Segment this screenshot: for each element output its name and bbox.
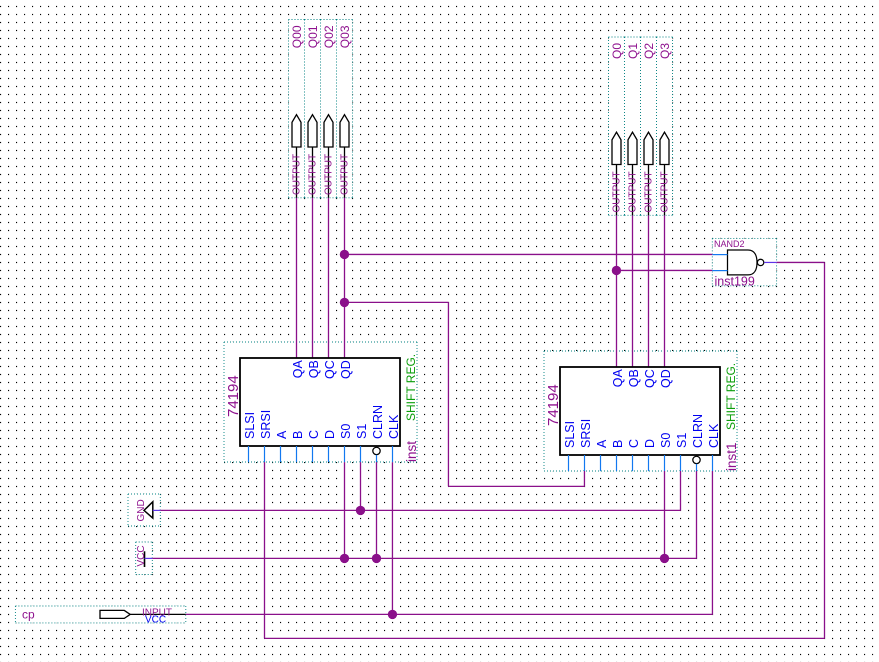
svg-text:VCC: VCC (145, 615, 166, 626)
svg-text:SLSI: SLSI (563, 421, 577, 448)
svg-text:QA: QA (611, 369, 625, 388)
svg-text:CLK: CLK (707, 423, 721, 448)
wire chip1 S0 drop (344, 462, 346, 558)
svg-text:QA: QA (291, 360, 305, 379)
svg-text:Q1: Q1 (626, 43, 640, 59)
svg-text:NAND2: NAND2 (714, 239, 745, 249)
svg-text:SHIFT REG.: SHIFT REG. (404, 354, 418, 421)
wire cp net horizontal (186, 613, 713, 615)
junction VCC/CLRN-1 (372, 554, 381, 563)
selection box GND (128, 494, 160, 526)
selection box pin Q0 (609, 37, 625, 215)
wire VCC riser to chip2 CLRN (696, 471, 698, 558)
wire net Q2 vertical (648, 215, 650, 367)
input pin cp (22, 608, 186, 626)
svg-text:QB: QB (627, 369, 641, 387)
svg-text:C: C (307, 430, 321, 439)
selection box NAND2 (712, 238, 776, 285)
svg-text:C: C (627, 439, 641, 448)
svg-text:SLSI: SLSI (243, 412, 257, 439)
junction QD1 branch (340, 298, 349, 307)
wire chip1 S1 drop (360, 462, 362, 510)
74194 shift register inst (225, 354, 419, 462)
74194 shift register inst1 (545, 363, 739, 471)
svg-text:OUTPUT: OUTPUT (628, 171, 639, 212)
svg-text:CLRN: CLRN (371, 405, 385, 439)
wire cp riser to chip2 CLK (711, 471, 713, 614)
svg-text:inst1: inst1 (724, 442, 739, 471)
svg-text:CLK: CLK (387, 414, 401, 439)
svg-text:Q00: Q00 (290, 25, 304, 48)
wire net Q01 vertical (312, 198, 314, 358)
output pin Q01 (306, 25, 320, 198)
svg-text:B: B (611, 440, 625, 448)
wire underlays (erase grid under wires) (295, 198, 298, 358)
selection box pin Q02 (321, 20, 337, 198)
output pin Q3 (658, 43, 672, 216)
wire QD1 to NAND input A (344, 253, 712, 255)
wire NAND output to right rail (777, 261, 825, 263)
selection box pin Q00 (289, 20, 305, 198)
wire VCC net horizontal (152, 557, 696, 559)
svg-text:SRSI: SRSI (579, 419, 593, 448)
svg-text:Q03: Q03 (338, 25, 352, 48)
selection box pin Q03 (337, 20, 353, 198)
svg-text:OUTPUT: OUTPUT (644, 171, 655, 212)
wire net Q00 vertical (296, 198, 298, 358)
selection box pin Q1 (625, 37, 641, 215)
junction QA2/NAND-B (612, 266, 621, 275)
svg-text:QD: QD (339, 360, 353, 379)
wire net Q3 vertical (664, 215, 666, 367)
wire right rail vertical (824, 262, 826, 638)
svg-text:SRSI: SRSI (259, 410, 273, 439)
wire QA2 to NAND input B (616, 269, 712, 271)
output pin Q1 (626, 43, 640, 216)
svg-text:Q3: Q3 (658, 43, 672, 59)
svg-text:OUTPUT: OUTPUT (340, 154, 351, 195)
wire branch horizontal y=486.4 (448, 485, 584, 487)
junction VCC/S0-2 (660, 554, 669, 563)
svg-text:QB: QB (307, 360, 321, 378)
svg-text:D: D (323, 430, 337, 439)
svg-text:QC: QC (323, 360, 337, 379)
output pin Q2 (642, 43, 656, 216)
NAND2 gate inst199 (712, 239, 776, 288)
svg-text:CLRN: CLRN (691, 414, 705, 448)
output pin Q0 (610, 43, 624, 216)
output pin Q00 (290, 25, 304, 198)
selection box input cp (15, 606, 185, 623)
svg-text:74194: 74194 (545, 384, 562, 426)
junction GND/S1-1 (356, 506, 365, 515)
output pin Q02 (322, 25, 336, 198)
ground GND (136, 499, 160, 521)
power VCC (136, 545, 153, 567)
wire chip2 S0 drop (664, 471, 666, 558)
selection box VCC (136, 542, 153, 575)
svg-text:S0: S0 (659, 433, 673, 448)
svg-text:B: B (291, 431, 305, 439)
svg-text:Q01: Q01 (306, 25, 320, 48)
svg-text:OUTPUT: OUTPUT (308, 154, 319, 195)
svg-text:OUTPUT: OUTPUT (324, 154, 335, 195)
svg-text:D: D (643, 439, 657, 448)
svg-text:cp: cp (22, 608, 35, 622)
svg-text:VCC: VCC (136, 545, 147, 566)
svg-text:Q02: Q02 (322, 25, 336, 48)
svg-text:OUTPUT: OUTPUT (612, 171, 623, 212)
junction QD1/NAND-A (340, 250, 349, 259)
svg-text:QD: QD (659, 369, 673, 388)
wire branch drop x=448.45 (447, 302, 449, 486)
selection box inst1 (544, 351, 737, 471)
svg-text:A: A (275, 430, 289, 439)
svg-text:S0: S0 (339, 424, 353, 439)
svg-text:74194: 74194 (225, 375, 242, 417)
output pin Q03 (338, 25, 352, 198)
junction VCC/S0-1 (340, 554, 349, 563)
junction cp/CLK1 (388, 610, 397, 619)
svg-text:OUTPUT: OUTPUT (660, 171, 671, 212)
svg-text:Q0: Q0 (610, 43, 624, 59)
svg-text:S1: S1 (355, 424, 369, 439)
svg-text:inst199: inst199 (715, 275, 755, 289)
svg-text:S1: S1 (675, 433, 689, 448)
svg-text:inst: inst (404, 441, 419, 462)
wire QD1 branch horizontal (344, 301, 448, 303)
wire feedback riser to chip1 SRSI (264, 462, 266, 638)
selection box pin Q01 (305, 20, 321, 198)
svg-text:Q2: Q2 (642, 43, 656, 59)
selection box pin Q2 (641, 37, 657, 215)
wire GND riser to chip2 S1 (680, 471, 682, 510)
wire branch riser to chip2 SRSI (583, 471, 585, 486)
svg-text:A: A (595, 439, 609, 448)
wire GND net horizontal (160, 509, 680, 511)
svg-text:OUTPUT: OUTPUT (292, 154, 303, 195)
selection box inst (224, 342, 417, 462)
svg-text:GND: GND (136, 499, 147, 521)
svg-text:QC: QC (643, 369, 657, 388)
selection box pin Q3 (657, 37, 673, 215)
wire net Q0 vertical (616, 215, 618, 367)
wire net Q03 vertical (344, 198, 346, 358)
wire bottom feedback (265, 637, 825, 639)
wire chip1 CLRN drop (376, 462, 378, 558)
svg-text:SHIFT REG.: SHIFT REG. (724, 363, 738, 430)
wire net Q02 vertical (328, 198, 330, 358)
wire chip1 CLK drop (391, 462, 393, 614)
wire net Q1 vertical (632, 215, 634, 367)
